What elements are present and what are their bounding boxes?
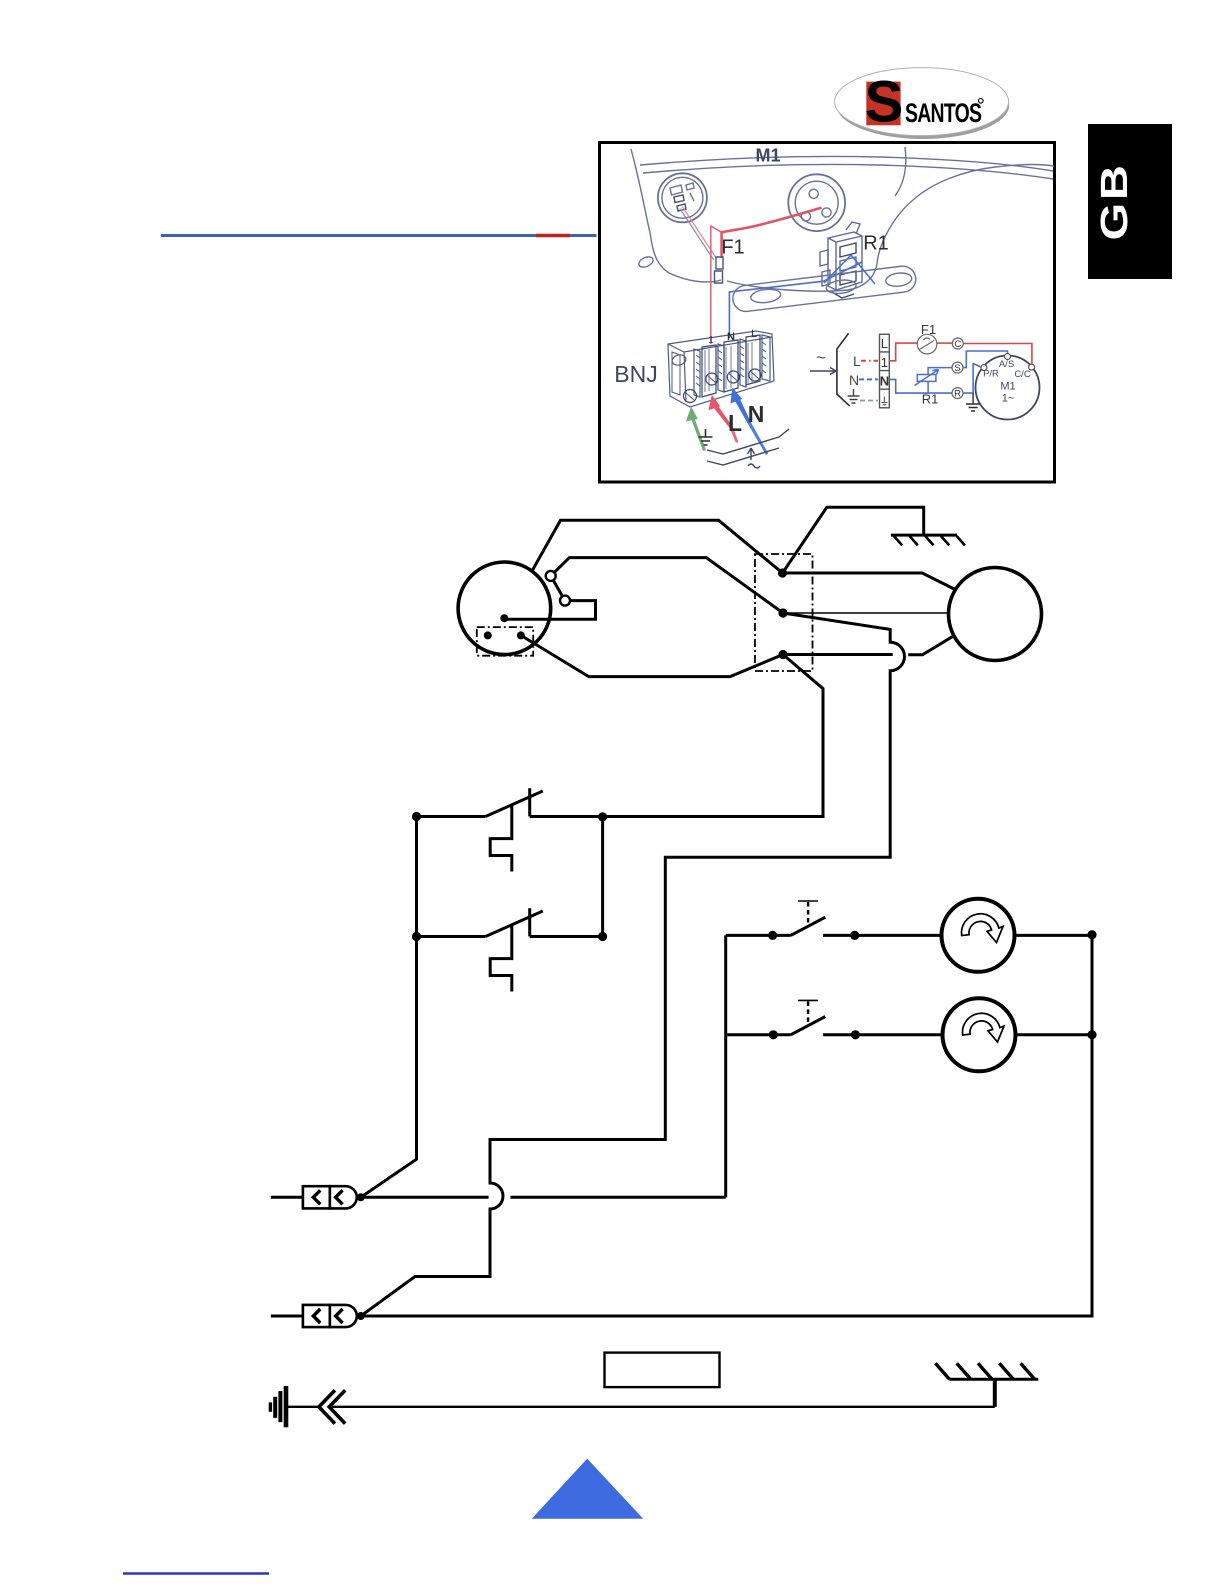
wire junction A to earth bbox=[783, 507, 924, 573]
wire start-device top to junction A bbox=[532, 520, 783, 573]
wire start contact to junction B bbox=[551, 558, 783, 613]
svg-text:BNJ: BNJ bbox=[614, 361, 657, 387]
junction S4 right bbox=[851, 1030, 860, 1039]
svg-text:L: L bbox=[881, 336, 888, 351]
wire start-relay blade bbox=[551, 576, 565, 601]
svg-text:M1: M1 bbox=[1000, 381, 1015, 393]
wire junction A to motor M1 bbox=[783, 573, 955, 589]
svg-text:~: ~ bbox=[816, 348, 826, 367]
dashed box start device bbox=[477, 627, 533, 656]
svg-text:S: S bbox=[865, 70, 904, 135]
wire blue S to A/S bbox=[963, 351, 1008, 368]
wire blue R1 bbox=[729, 255, 875, 338]
junction M3 right bbox=[1087, 1030, 1096, 1039]
plug connector P1 bbox=[271, 1186, 365, 1208]
motor M2 bbox=[942, 899, 1015, 972]
bracket plate bbox=[731, 265, 917, 313]
wire junction B to motor M1 (thin) bbox=[783, 612, 950, 614]
footer rule bbox=[123, 1572, 269, 1574]
mains cable sketch bbox=[707, 429, 789, 468]
start device circle bbox=[458, 562, 551, 655]
svg-text:1: 1 bbox=[881, 355, 888, 370]
arrow earth (green) bbox=[686, 407, 706, 452]
wire red down to BNJ bbox=[711, 226, 722, 344]
svg-text:R1: R1 bbox=[922, 392, 939, 407]
svg-text:R: R bbox=[954, 389, 961, 400]
junction S1 right bbox=[598, 812, 607, 821]
svg-text:R1: R1 bbox=[863, 233, 889, 255]
junction S4 left bbox=[769, 1030, 778, 1039]
wire left rail to plug P1 bbox=[361, 817, 417, 1198]
terminal strip bbox=[880, 334, 890, 408]
wire junction C to start dot B bbox=[521, 635, 783, 676]
double chevron bbox=[319, 1390, 345, 1423]
wire feeder vertical bbox=[724, 935, 727, 1197]
junction M2 right bbox=[1087, 930, 1096, 939]
overload switch S1 bbox=[417, 788, 603, 871]
earth symbol supply bbox=[848, 389, 860, 403]
svg-text:1~: 1~ bbox=[1002, 393, 1015, 405]
motor M1 mini bbox=[976, 356, 1040, 420]
svg-text:F1: F1 bbox=[721, 237, 744, 259]
node dots start device bbox=[484, 614, 525, 639]
connector F1 bbox=[715, 257, 724, 283]
junction S1 left bbox=[412, 812, 421, 821]
svg-text:N: N bbox=[880, 374, 889, 389]
svg-text:SANTOS: SANTOS bbox=[905, 98, 981, 128]
wire blue R to P/R bbox=[963, 364, 981, 394]
motor M1 circle bbox=[949, 568, 1042, 661]
svg-text:L: L bbox=[853, 353, 861, 369]
wire N dashes bbox=[859, 378, 878, 380]
SANTOS logo bbox=[835, 68, 1010, 139]
svg-text:L: L bbox=[751, 328, 757, 340]
wire junction B down through hop to plug P2 bbox=[361, 613, 905, 1316]
AC supply mark bbox=[810, 348, 836, 375]
ground (bottom right) bbox=[935, 1363, 1038, 1407]
wire red to F1 bbox=[889, 343, 917, 361]
wire junction C to overload row bbox=[603, 655, 823, 817]
port (right, pins) bbox=[788, 174, 845, 231]
switch S4 row bbox=[726, 1000, 1092, 1034]
wire blue N to R bbox=[889, 379, 951, 393]
wire rail S1-S2 bbox=[601, 817, 604, 937]
svg-text:A/S: A/S bbox=[999, 359, 1014, 370]
blue rule line bbox=[161, 234, 597, 237]
GB language tab bbox=[1088, 124, 1172, 279]
svg-text:S: S bbox=[954, 363, 960, 374]
wire red C to C/C bbox=[963, 344, 1032, 365]
wire right rail to plug P2 bbox=[361, 935, 1092, 1316]
relay R1 block bbox=[820, 222, 862, 298]
junction S2 right bbox=[598, 932, 607, 941]
ground (top) bbox=[891, 535, 965, 545]
relay R1 mini bbox=[915, 368, 952, 394]
terminal block BNJ bbox=[668, 331, 774, 407]
motor M3 bbox=[943, 998, 1016, 1071]
svg-text:P/R: P/R bbox=[983, 369, 999, 380]
supply bracket bbox=[837, 333, 850, 406]
arrow L (red) bbox=[709, 395, 739, 443]
wire plug P1 line bbox=[361, 1196, 726, 1199]
earth motor bbox=[966, 393, 980, 411]
blue triangle bbox=[532, 1459, 644, 1519]
wire red protector bbox=[682, 207, 716, 259]
svg-text:N: N bbox=[727, 331, 735, 343]
svg-text:N: N bbox=[748, 401, 765, 427]
svg-text:GB: GB bbox=[1093, 162, 1136, 240]
svg-text:C/C: C/C bbox=[1014, 369, 1031, 380]
wire L dashes bbox=[861, 360, 878, 362]
dashed box junctions bbox=[755, 554, 813, 671]
svg-text:M1: M1 bbox=[755, 146, 780, 166]
junction S3 left bbox=[768, 931, 777, 940]
junction S2 left bbox=[412, 932, 421, 941]
node C bbox=[778, 650, 787, 659]
port (left, protector) bbox=[658, 173, 707, 222]
red segment on rule bbox=[536, 234, 570, 238]
svg-text:L: L bbox=[728, 410, 742, 436]
fuse F1 circle bbox=[917, 334, 937, 354]
svg-text:F1: F1 bbox=[921, 322, 936, 337]
terminal S bbox=[952, 362, 963, 373]
plug connector P2 bbox=[271, 1305, 365, 1327]
terminal C bbox=[952, 338, 963, 349]
node A bbox=[778, 568, 787, 577]
wire red main bbox=[722, 208, 822, 258]
FRAMED_DRAWING bbox=[614, 146, 1054, 469]
mains earth line bbox=[286, 1406, 995, 1408]
overload switch S2 bbox=[417, 908, 603, 991]
wire coil hook bbox=[504, 601, 595, 620]
terminal R bbox=[952, 388, 963, 399]
wire junction C to motor M1 lower bbox=[783, 637, 952, 655]
motor nodes bbox=[981, 354, 1035, 371]
junction S3 right bbox=[850, 931, 859, 940]
svg-text:N: N bbox=[849, 372, 859, 388]
photo frame bbox=[600, 143, 1055, 483]
compressor body M1 bbox=[631, 147, 1054, 291]
earth symbol small bbox=[699, 429, 713, 445]
svg-text:1: 1 bbox=[708, 335, 714, 346]
start relay contacts bbox=[546, 571, 570, 606]
arrow N (blue) bbox=[730, 388, 768, 455]
wire red F1 to C bbox=[937, 342, 952, 344]
label box bbox=[605, 1353, 720, 1388]
chassis bars bbox=[270, 1386, 286, 1427]
switch S3 row bbox=[726, 901, 1092, 935]
wire earth dashes bbox=[860, 400, 878, 402]
svg-text:C: C bbox=[954, 339, 961, 350]
node B bbox=[778, 608, 787, 617]
